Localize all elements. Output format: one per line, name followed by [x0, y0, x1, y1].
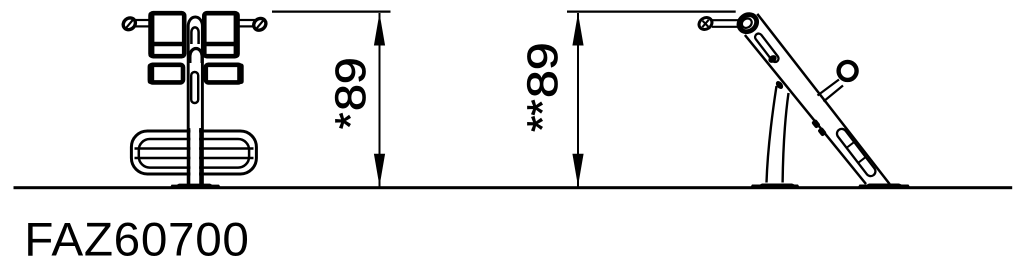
svg-text:89: 89 — [518, 42, 566, 98]
bench outer — [131, 131, 256, 174]
knob rod — [712, 19, 741, 21]
board lower edge — [745, 35, 866, 184]
svg-text:**: ** — [519, 99, 567, 131]
rod end flange — [740, 19, 743, 29]
post (center tube) — [188, 17, 202, 186]
right figure left foot plate — [750, 184, 801, 189]
row1 left pad inner line — [150, 42, 186, 46]
bench line 2 — [135, 157, 254, 160]
svg-text:*: * — [328, 113, 375, 130]
bench inner — [139, 139, 249, 168]
left handle knob — [121, 16, 138, 33]
row2 right pad — [206, 65, 241, 83]
top arrow — [374, 13, 385, 46]
right handle knob — [251, 16, 268, 33]
post clamp arch between pad rows — [190, 48, 202, 63]
top arrow — [572, 13, 583, 46]
svg-text:FAZ60700: FAZ60700 — [24, 214, 249, 264]
bottom arrow — [572, 154, 583, 187]
post inner arch — [191, 27, 198, 44]
support leg right line — [783, 93, 789, 183]
post passes in front of bench — [190, 128, 199, 186]
dim text *89 — [327, 57, 375, 129]
slot end cap dark — [767, 53, 778, 64]
extension line — [272, 10, 391, 12]
leg-board junction mark — [774, 80, 784, 91]
ring knob stem — [818, 80, 840, 96]
bolt 2 — [817, 127, 827, 137]
row1 right pad — [204, 13, 237, 56]
bolt 1 — [811, 119, 821, 129]
right figure right foot plate — [857, 184, 911, 189]
bench line 1 — [135, 147, 254, 150]
row1 right pad inner line — [204, 42, 239, 46]
row2 left pad — [150, 65, 183, 83]
support leg left line — [767, 86, 777, 183]
top cap — [736, 11, 761, 35]
post slot — [191, 72, 198, 103]
lower slot — [835, 127, 877, 178]
bottom arrow — [374, 154, 385, 187]
row2 left pad end cap — [148, 64, 155, 85]
upper slot — [754, 32, 780, 63]
dimension line — [577, 13, 579, 187]
knob — [697, 15, 714, 32]
row1 left pad — [151, 13, 185, 56]
dimension line — [379, 13, 381, 187]
board upper edge — [757, 14, 889, 184]
lower slot division 2 — [859, 157, 866, 163]
top cap inner ellipse — [740, 17, 754, 30]
row2 right pad end cap — [237, 64, 244, 85]
left figure foot plate — [169, 184, 221, 189]
extension line — [567, 10, 736, 12]
lower slot division 1 — [847, 142, 854, 148]
svg-text:89: 89 — [327, 57, 375, 111]
left handle rod — [134, 20, 150, 26]
row1 left pad end cap — [148, 12, 154, 58]
dim text **89 — [518, 42, 566, 131]
row1 right pad end cap — [234, 12, 240, 58]
right handle rod — [240, 20, 256, 26]
ring knob — [839, 62, 857, 80]
